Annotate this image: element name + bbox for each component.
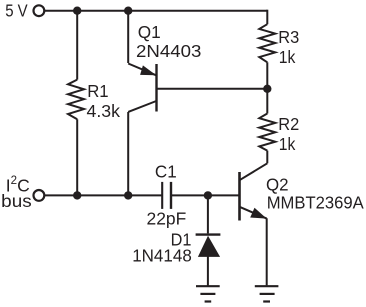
node junction R3-R2-Q1 base	[263, 85, 271, 93]
wire R1 top lead	[76, 11, 78, 80]
transistor Q2	[240, 163, 268, 220]
svg-text:R1: R1	[87, 81, 108, 101]
terminal 5V	[34, 5, 45, 16]
wire R3 top lead	[266, 10, 268, 25]
svg-text:C1: C1	[155, 162, 177, 182]
svg-text:1k: 1k	[279, 134, 296, 154]
wire Q1 base	[157, 88, 268, 90]
svg-text:R3: R3	[278, 27, 299, 47]
node junction 5V-Q1 emitter	[124, 7, 132, 15]
svg-text:bus: bus	[1, 191, 32, 211]
wire Q2 emitter lead	[266, 218, 268, 285]
wire R1 bottom lead	[76, 119, 78, 195]
ground under D1	[196, 286, 220, 301]
wire D1 cathode lead	[207, 195, 209, 233]
svg-text:5 V: 5 V	[5, 1, 28, 21]
wire R3 bottom to R2 top	[266, 62, 268, 113]
resistor R1	[68, 80, 84, 120]
terminal I2C bus	[34, 190, 45, 201]
transistor Q1	[128, 11, 156, 112]
resistor R2	[259, 114, 275, 151]
ground under Q2 emitter	[255, 286, 279, 301]
svg-text:Q1: Q1	[138, 22, 161, 42]
svg-text:MMBT2369A: MMBT2369A	[267, 192, 364, 212]
node A junction C1-D1-Q2 base	[204, 191, 212, 199]
svg-text:2N4403: 2N4403	[136, 41, 201, 61]
wire C1 to node A	[171, 194, 208, 196]
svg-text:22pF: 22pF	[147, 209, 187, 229]
node junction bus-Q1 collector	[124, 191, 132, 199]
wire Q1 collector lead	[127, 112, 129, 195]
wire node A to Q2 base	[208, 194, 240, 196]
wire D1 anode lead	[207, 256, 209, 286]
node junction 5V-R1	[73, 7, 81, 15]
resistor R3	[259, 24, 275, 62]
capacitor C1	[162, 182, 171, 209]
wire R2 bottom lead	[266, 151, 268, 164]
node junction bus-R1	[73, 191, 81, 199]
diode D1	[196, 235, 221, 257]
svg-text:R2: R2	[278, 114, 299, 134]
wire I2C bus to C1	[45, 194, 163, 196]
svg-text:1k: 1k	[279, 47, 296, 67]
wire 5V rail	[45, 10, 268, 12]
svg-text:4.3k: 4.3k	[87, 101, 121, 121]
svg-text:1N4148: 1N4148	[132, 245, 192, 265]
